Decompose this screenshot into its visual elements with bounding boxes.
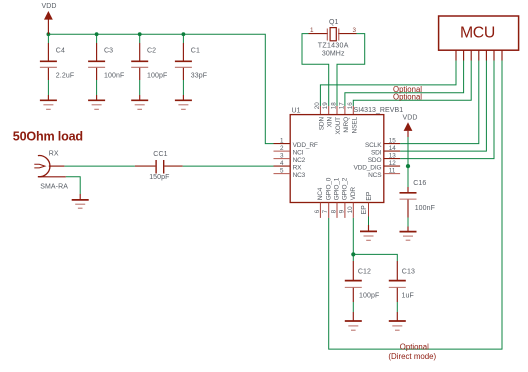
svg-text:8: 8 [331, 209, 338, 213]
svg-text:20: 20 [314, 102, 321, 110]
svg-text:14: 14 [389, 145, 397, 152]
svg-text:SDI: SDI [371, 150, 382, 157]
svg-text:C13: C13 [402, 269, 415, 276]
svg-text:4: 4 [280, 160, 284, 167]
svg-text:EP: EP [361, 205, 368, 215]
svg-text:XOUT: XOUT [335, 117, 342, 135]
svg-text:1: 1 [280, 137, 284, 144]
svg-text:CC1: CC1 [153, 151, 167, 158]
svg-text:C3: C3 [104, 48, 113, 55]
svg-text:TZ1430A: TZ1430A [318, 42, 349, 49]
svg-text:3: 3 [280, 152, 284, 159]
svg-text:100pF: 100pF [359, 293, 379, 300]
svg-text:30MHz: 30MHz [322, 50, 345, 57]
svg-text:VDD_DIG: VDD_DIG [354, 165, 382, 172]
svg-text:2: 2 [280, 145, 284, 152]
svg-text:3: 3 [353, 27, 357, 34]
svg-text:NC3: NC3 [293, 172, 306, 179]
svg-text:GPIO_2: GPIO_2 [342, 177, 349, 200]
svg-text:C1: C1 [191, 48, 200, 55]
svg-text:SDN: SDN [318, 117, 325, 131]
svg-text:C12: C12 [358, 269, 371, 276]
svg-text:NC4: NC4 [317, 187, 324, 200]
svg-text:VDR: VDR [350, 187, 357, 201]
svg-text:12: 12 [389, 160, 397, 167]
svg-text:33pF: 33pF [191, 73, 207, 80]
svg-text:SMA-RA: SMA-RA [40, 183, 68, 190]
svg-text:XIN: XIN [327, 117, 334, 128]
svg-text:7: 7 [322, 209, 329, 213]
svg-text:MCU: MCU [460, 25, 495, 42]
svg-text:SCLK: SCLK [365, 142, 382, 149]
svg-text:Optional: Optional [400, 342, 429, 351]
svg-text:100nF: 100nF [104, 73, 124, 80]
svg-text:10: 10 [347, 206, 354, 214]
svg-text:18: 18 [331, 102, 338, 110]
svg-text:2.2uF: 2.2uF [56, 73, 74, 80]
svg-text:17: 17 [338, 102, 345, 110]
svg-text:6: 6 [314, 209, 321, 213]
svg-text:RX: RX [293, 165, 303, 172]
svg-text:9: 9 [338, 209, 345, 213]
svg-text:VDD: VDD [403, 114, 418, 121]
svg-text:NIRQ: NIRQ [343, 117, 350, 133]
svg-text:SDO: SDO [368, 157, 382, 164]
svg-text:C16: C16 [413, 180, 426, 187]
svg-text:U1: U1 [292, 107, 301, 114]
svg-text:C4: C4 [56, 48, 65, 55]
svg-text:100pF: 100pF [147, 73, 167, 80]
svg-text:VDD: VDD [42, 3, 57, 10]
svg-text:15: 15 [389, 137, 397, 144]
svg-text:NSEL: NSEL [351, 116, 358, 133]
svg-text:VDD_RF: VDD_RF [293, 142, 318, 149]
svg-text:SI4313_REVB1: SI4313_REVB1 [354, 107, 404, 114]
svg-text:GPIO_1: GPIO_1 [334, 177, 341, 200]
svg-text:NC2: NC2 [293, 157, 306, 164]
svg-text:NCI: NCI [293, 150, 304, 157]
svg-text:50Ohm load: 50Ohm load [13, 130, 83, 144]
svg-text:Q1: Q1 [329, 19, 339, 26]
svg-text:19: 19 [322, 102, 329, 110]
svg-text:1uF: 1uF [402, 293, 414, 300]
svg-text:(Direct mode): (Direct mode) [388, 352, 436, 361]
svg-text:11: 11 [389, 167, 396, 174]
svg-text:Optional: Optional [393, 92, 422, 101]
svg-text:RX: RX [49, 150, 59, 157]
svg-text:EP: EP [366, 191, 373, 201]
svg-text:150pF: 150pF [149, 174, 169, 181]
svg-text:13: 13 [389, 152, 397, 159]
svg-text:GPIO_0: GPIO_0 [325, 177, 332, 200]
svg-text:5: 5 [280, 167, 284, 174]
svg-text:NCS: NCS [368, 172, 382, 179]
svg-text:16: 16 [347, 102, 354, 110]
svg-text:100nF: 100nF [415, 205, 435, 212]
svg-text:C2: C2 [147, 48, 156, 55]
svg-text:1: 1 [310, 27, 314, 34]
